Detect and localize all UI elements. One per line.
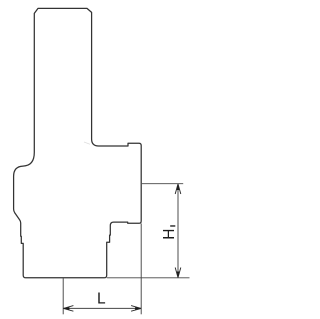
svg-text:L: L [97, 291, 106, 308]
svg-text:H: H [161, 228, 178, 239]
